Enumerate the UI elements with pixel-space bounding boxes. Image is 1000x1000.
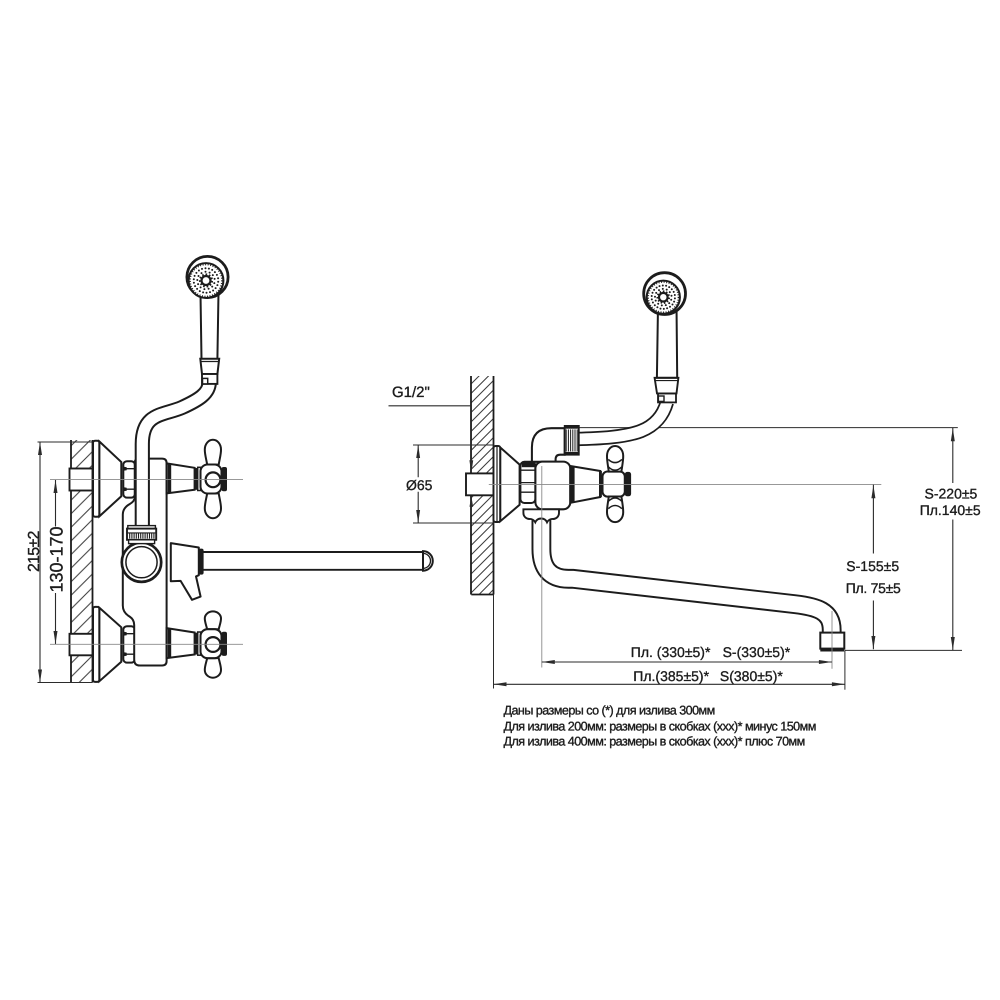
nozzle centreline (right view) — [831, 611, 833, 669]
dimension S-220±5 / Пл.140±5 — [952, 428, 954, 651]
dimension S-155±5 / Пл.75±5 — [872, 485, 874, 650]
hex nut (right view) — [520, 462, 535, 503]
shower hose (left view) — [142, 382, 209, 532]
wall (right view, hatched) — [471, 376, 494, 595]
shower head (right view) — [644, 273, 686, 315]
dimension 215±2 — [38, 442, 93, 683]
spout tube (right view) — [541, 514, 831, 633]
escutcheon flange (right view) — [494, 446, 501, 522]
handle wings (right view) — [607, 446, 623, 472]
svg-text:Пл.140±5: Пл.140±5 — [920, 502, 981, 518]
svg-text:S(380±5)*: S(380±5)* — [720, 668, 783, 684]
handle hub (left view) — [201, 629, 222, 658]
lower hex nut (left view) — [123, 626, 135, 662]
valve vertical centreline (right view) — [541, 466, 543, 668]
spout connection cone + diverter lever (left view) — [171, 543, 201, 600]
svg-text:S-(330±5)*: S-(330±5)* — [723, 644, 791, 660]
svg-text:Даны размеры со (*) для излива: Даны размеры со (*) для излива 300мм — [504, 704, 715, 718]
svg-text:215±2: 215±2 — [26, 531, 43, 572]
shower hose connector (right view) — [658, 393, 676, 402]
centreline lower valve (left view) — [50, 643, 243, 645]
spout nut, scalloped (right view) — [523, 509, 559, 522]
svg-text:G1/2": G1/2" — [392, 384, 430, 401]
extension line: nozzle bottom level — [845, 649, 962, 651]
spout nozzle (right view) — [820, 633, 844, 649]
spout tube (left view) — [203, 551, 423, 571]
svg-text:130-170: 130-170 — [46, 526, 66, 592]
svg-text:Ø65: Ø65 — [406, 477, 433, 493]
shower hose (right view) — [576, 402, 667, 439]
shower head (left view) — [187, 256, 228, 297]
lower escutcheon flange (left view) — [93, 607, 99, 682]
hose end collar above nut (left view) — [128, 526, 156, 529]
handle wings (left view) — [205, 611, 221, 629]
spout port ring (left view) — [122, 543, 161, 582]
shower handle (left view) — [201, 292, 219, 359]
svg-text:Для излива 400мм: размеры в ск: Для излива 400мм: размеры в скобках (ххх… — [504, 735, 805, 749]
svg-text:Для излива 200мм: размеры в ск: Для излива 200мм: размеры в скобках (ххх… — [504, 719, 816, 733]
upper escutcheon flange (left view) — [93, 441, 99, 517]
svg-text:Пл. 75±5: Пл. 75±5 — [846, 580, 901, 596]
valve bonnet (left view) — [167, 628, 195, 658]
valve bonnet (left view) — [167, 463, 195, 493]
handle wings (left view) — [205, 440, 221, 465]
handle end cap (left view) — [222, 467, 227, 491]
shower elbow (right view) — [532, 428, 565, 462]
valve bonnet (right view) — [570, 466, 600, 503]
handle end cap (left view) — [222, 632, 227, 656]
svg-text:S-155±5: S-155±5 — [846, 558, 899, 574]
upper escutcheon cone (left view) — [99, 442, 121, 517]
svg-text:Пл.(385±5)*: Пл.(385±5)* — [633, 668, 709, 684]
centreline upper valve (left view) — [50, 479, 243, 481]
lower escutcheon cone (left view) — [99, 608, 121, 681]
handle hub (left view) — [201, 465, 222, 494]
main centreline (right view) — [489, 484, 882, 486]
upper pipe stub (left view) — [70, 469, 93, 491]
extension line: nozzle outer edge — [844, 650, 846, 689]
shower hose nut, knurled (left view) — [127, 529, 156, 540]
handle end cap (right view) — [625, 472, 631, 496]
shower handle (right view) — [657, 305, 677, 378]
dimension Ø65 — [413, 445, 494, 523]
lower pipe stub (left view) — [70, 634, 93, 656]
escutcheon cone (right view) — [500, 448, 519, 522]
handle hub (right view) — [603, 472, 625, 497]
spout end cap (left view) — [423, 551, 433, 571]
faucet body (right view) — [535, 462, 570, 510]
hose nut, knurled (right view) — [565, 426, 579, 455]
shower hose connector (left view) — [200, 359, 219, 374]
pipe stub (right view) — [466, 473, 494, 495]
svg-text:Пл. (330±5)*: Пл. (330±5)* — [631, 644, 711, 660]
upper hex nut (left view) — [123, 461, 135, 497]
extension line: top of hose (right view) — [579, 427, 958, 429]
svg-text:S-220±5: S-220±5 — [925, 485, 978, 501]
dimension Пл.(385±5)* / S(380±5)* — [494, 683, 845, 685]
faucet body (left view) — [123, 459, 167, 666]
wall face extension line (right view) — [493, 595, 495, 689]
wall (left view, hatched) — [71, 440, 93, 683]
dimension Пл.(330±5)* / S-(330±5)* — [542, 661, 832, 663]
dimension 130-170 — [55, 480, 57, 644]
